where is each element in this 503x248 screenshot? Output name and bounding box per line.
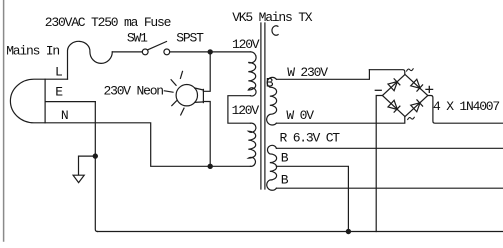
label ~ bottom (408, 117, 415, 119)
svg-text:Mains In: Mains In (6, 44, 59, 59)
svg-text:120V: 120V (232, 103, 260, 118)
bridge rectifier diamond (382, 74, 427, 116)
svg-text:B: B (281, 151, 289, 166)
wire W 230V lead (276, 70, 369, 80)
svg-text:E: E (55, 84, 63, 99)
neon lamp NE1 electrode bar (202, 89, 204, 102)
fuse F1 (68, 41, 113, 79)
wire W 0V lead (276, 117, 404, 124)
neon ray lower-left (172, 101, 177, 106)
diode D1 (388, 79, 400, 91)
switch SW1 (142, 49, 148, 55)
node center tap to rail (346, 229, 350, 233)
node earth branch (93, 154, 97, 158)
primary winding upper 120V (248, 52, 256, 96)
node primary bottom junction (208, 164, 212, 168)
ground symbol (73, 175, 84, 182)
svg-text:N: N (61, 108, 68, 123)
svg-text:230V Neon: 230V Neon (104, 83, 164, 98)
svg-text:W 230V: W 230V (287, 65, 328, 80)
transformer T1 core (261, 23, 265, 189)
wire bridge top feed (369, 70, 404, 75)
svg-text:B: B (281, 173, 289, 188)
svg-text:L: L (55, 64, 62, 79)
secondary winding W 230V (267, 77, 277, 125)
stray arc mark (272, 26, 278, 35)
label minus (375, 89, 381, 91)
secondary winding R 6.3V (267, 145, 277, 190)
wire N terminal (45, 123, 210, 167)
svg-text:SPST: SPST (176, 31, 204, 46)
wire center tap lead (276, 166, 348, 231)
wire earth branch (79, 156, 96, 175)
primary winding lower 120V (248, 123, 256, 166)
neon ray left (164, 91, 173, 92)
wire switch to primary (170, 51, 251, 53)
svg-text:120V: 120V (232, 37, 260, 52)
wire bridge minus output (376, 96, 382, 232)
svg-text:W 0V: W 0V (286, 108, 314, 123)
svg-text:230VAC T250 ma Fuse: 230VAC T250 ma Fuse (45, 15, 171, 30)
wire neon branch lower (203, 102, 210, 167)
connector Mains In shell (10, 79, 45, 123)
wire bridge plus output (428, 96, 503, 124)
neon ray top (180, 71, 182, 78)
wire neon branch upper (203, 52, 210, 91)
wire fuse to switch (112, 51, 142, 53)
neon ray upper-left (171, 80, 176, 86)
node switch-primary junction (208, 50, 212, 54)
svg-text:VK5 Mains TX: VK5 Mains TX (232, 10, 313, 25)
wire R bottom lead (276, 187, 503, 189)
svg-text:4 X 1N4007: 4 X 1N4007 (433, 99, 499, 114)
diode D4 (411, 100, 423, 112)
label plus (426, 86, 433, 92)
wire primary series link (228, 96, 251, 124)
label ~ top (407, 69, 414, 71)
diode D2 (411, 79, 423, 91)
diode D3 (388, 100, 400, 112)
neon ray bottom (181, 108, 184, 115)
wire L terminal (45, 78, 67, 80)
neon lamp NE1 flares (195, 88, 204, 102)
svg-text:R 6.3V CT: R 6.3V CT (280, 130, 341, 145)
svg-text:SW1: SW1 (127, 31, 148, 46)
wire primary lower lead (210, 165, 250, 167)
window border left edge (3, 0, 5, 241)
wire bottom rail (97, 231, 503, 233)
wire earth vertical (95, 102, 97, 232)
wire R top lead (276, 147, 503, 149)
neon lamp NE1 envelope (176, 85, 197, 106)
wire E terminal (45, 101, 95, 103)
